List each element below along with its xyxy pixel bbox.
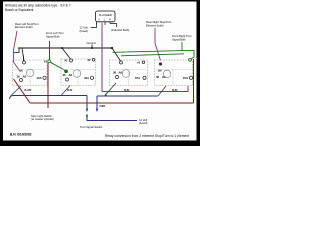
wire blue lamp1 drop <box>11 86 21 96</box>
wire purple bottom bus <box>102 86 188 92</box>
wire maroon stop light bus <box>30 102 194 104</box>
lamp L3 inner socket lines <box>111 70 147 86</box>
wire blue right bus <box>97 95 158 97</box>
wire blue lamp2 drop <box>61 86 70 96</box>
svg-text:#1: #1 <box>137 61 141 65</box>
svg-text:(fused): (fused) <box>80 29 88 33</box>
wire green front-left label drop <box>49 41 51 60</box>
ground bus left hook wire <box>14 48 20 53</box>
svg-text:FLASHER: FLASHER <box>99 13 112 17</box>
svg-text:Element (bulb): Element (bulb) <box>146 23 164 27</box>
node junction bus/lamp2 <box>61 47 63 49</box>
svg-text:(Indicator Bulb): (Indicator Bulb) <box>111 28 129 32</box>
lamp L2 inner socket lines <box>62 70 95 86</box>
ground bus wire <box>18 47 112 49</box>
wire green front-right label drop G2 <box>181 42 183 51</box>
svg-text:Stop Light Switch: Stop Light Switch <box>31 114 52 118</box>
wire blue turn signal to 12V feed <box>87 115 137 121</box>
node green terminal lamp2 <box>65 70 68 73</box>
svg-text:67A: 67A <box>183 76 188 80</box>
svg-text:Rear Left Stop/Turn: Rear Left Stop/Turn <box>15 22 39 26</box>
svg-text:43A: 43A <box>84 76 89 80</box>
node junction bus/lamp3 <box>111 47 113 49</box>
svg-text:A6: A6 <box>23 75 27 79</box>
svg-text:Turn Signal Switch: Turn Signal Switch <box>80 125 103 129</box>
svg-text:36: 36 <box>156 75 160 79</box>
wire blue lamp3 drop with arrow <box>106 83 117 95</box>
svg-text:36: 36 <box>63 73 67 77</box>
svg-text:B-152: B-152 <box>25 89 32 92</box>
svg-text:Relay conversion from 2 elemen: Relay conversion from 2 element Stop/Tur… <box>105 134 189 138</box>
ground stub wire <box>91 45 93 49</box>
wire flasher pin P to indicator bulb <box>110 24 117 28</box>
lamp housing L3 <box>110 60 148 86</box>
wire bus to lamp3 top terminal <box>112 48 121 61</box>
flasher U1 <box>96 11 116 22</box>
lamp housing L2 <box>61 58 96 86</box>
svg-text:A6: A6 <box>119 71 123 75</box>
lamp L4 inner socket lines <box>156 70 192 86</box>
lamp housing L1 <box>13 56 48 86</box>
wire bus to lamp2 top terminal <box>62 48 71 59</box>
wire 12V to flasher pin X <box>91 23 97 28</box>
svg-text:#487: #487 <box>100 104 106 108</box>
border frame <box>0 0 3 146</box>
svg-text:Front Right Turn: Front Right Turn <box>172 34 192 38</box>
svg-text:B6: B6 <box>19 69 23 73</box>
svg-text:(at master cylinder): (at master cylinder) <box>31 117 54 121</box>
wire purple flasher pin L drop <box>101 23 103 92</box>
svg-text:36: 36 <box>113 71 117 75</box>
wire blue arrow B to turn signal switch <box>96 96 98 109</box>
node ground stub junction <box>91 47 93 49</box>
wire maroon vertical mid <box>47 63 49 108</box>
wire green diagonal lamp1 to lamp2 <box>51 62 66 70</box>
svg-text:12 Volt: 12 Volt <box>80 25 88 29</box>
svg-text:Front Left Turn: Front Left Turn <box>46 31 64 35</box>
lamp housing L4 <box>155 58 193 85</box>
svg-text:67A: 67A <box>135 76 140 80</box>
svg-text:B-82: B-82 <box>172 89 178 92</box>
svg-text:B.H. 6/10/2002: B.H. 6/10/2002 <box>10 132 32 136</box>
flasher pin stubs <box>97 22 111 25</box>
svg-text:#2: #2 <box>88 58 92 62</box>
svg-text:Element (bulb): Element (bulb) <box>15 25 33 29</box>
svg-text:B-61: B-61 <box>67 89 73 92</box>
svg-text:A6: A6 <box>162 75 166 79</box>
wire green top-right horizontal G1 <box>113 50 195 59</box>
svg-text:#1: #1 <box>65 59 69 63</box>
svg-text:(fused): (fused) <box>139 121 147 125</box>
svg-text:36: 36 <box>17 75 21 79</box>
svg-text:B6: B6 <box>158 69 162 73</box>
svg-text:Signal Bulb: Signal Bulb <box>172 38 186 42</box>
svg-text:All fuses are 30 amp automotiv: All fuses are 30 amp automotive type - S… <box>5 3 71 7</box>
wire magenta rear-left label to lamp1 <box>14 31 20 70</box>
svg-text:Busch or Equivalent: Busch or Equivalent <box>5 8 33 12</box>
wire green lower right G2 <box>121 54 184 56</box>
svg-text:A6: A6 <box>69 73 73 77</box>
wire maroon right riser <box>193 59 195 103</box>
wire maroon lamp1 to stop bus <box>14 79 31 103</box>
wire blue left bus <box>10 96 88 100</box>
svg-text:Rear Right Stop/Turn: Rear Right Stop/Turn <box>146 20 172 24</box>
wire blue arrow A to turn signal switch <box>86 96 88 110</box>
svg-text:12 Volt: 12 Volt <box>139 118 147 122</box>
node green terminal <box>48 60 51 63</box>
wire blue lamp4 drop <box>158 86 166 96</box>
wire bus to lamp1 top terminal <box>22 48 24 61</box>
lamp L1 inner socket lines <box>14 70 47 86</box>
svg-text:43A: 43A <box>37 76 42 80</box>
svg-text:B-81: B-81 <box>124 89 130 92</box>
svg-text:Ground: Ground <box>87 41 96 45</box>
wire purple rear-right label to lamp4 <box>155 28 161 61</box>
svg-text:Signal Bulb: Signal Bulb <box>46 35 60 39</box>
